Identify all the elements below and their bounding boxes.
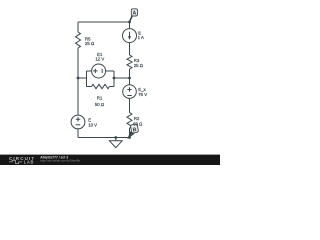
svg-text:75 V: 75 V: [138, 92, 147, 97]
wire right branch mid: [129, 69, 131, 85]
svg-text:50 Ω: 50 Ω: [95, 102, 105, 107]
node B flag pointer: [127, 131, 134, 139]
resistor R5: [76, 32, 81, 48]
resistor R1: [92, 84, 110, 88]
wire left branch lower: [77, 129, 79, 138]
wire top horizontal: [78, 21, 130, 23]
svg-text:http://circuitlab.com/c/3hxe5b: http://circuitlab.com/c/3hxe5b: [40, 159, 80, 163]
watermark bar: [0, 155, 220, 165]
junction dot right E1 loop: [113, 77, 116, 80]
wire E1 top lead left: [87, 70, 92, 72]
svg-text:50 Ω: 50 Ω: [133, 122, 143, 127]
svg-text:10 V: 10 V: [88, 122, 97, 127]
junction dot node B: [128, 136, 131, 139]
svg-text:R2: R2: [134, 116, 140, 121]
wire right branch below E_x: [129, 98, 131, 112]
wire R1 lead right: [110, 86, 115, 88]
arrowhead of current source I1: [128, 36, 131, 39]
watermark logo LAB: [9, 160, 22, 163]
svg-text:1 A: 1 A: [138, 35, 144, 40]
wire E1 loop right bracket: [113, 71, 115, 87]
wire left branch mid: [77, 48, 79, 115]
wire middle horizontal: [114, 77, 130, 79]
node B flag box: [130, 124, 138, 133]
current source I1: [123, 29, 137, 43]
junction dot left E1 loop: [77, 77, 80, 80]
svg-text:12 V: 12 V: [95, 56, 104, 61]
voltage source E_x: [123, 85, 137, 99]
svg-text:25 Ω: 25 Ω: [134, 63, 144, 68]
svg-text:LAB: LAB: [24, 159, 34, 164]
resistor R2: [127, 113, 132, 129]
wire E1 loop left bracket: [86, 71, 88, 87]
junction dot ground tap: [114, 136, 117, 139]
voltage source E: [71, 115, 85, 129]
wire right branch below I1: [129, 43, 131, 55]
ground: [115, 138, 117, 141]
wire bottom horizontal: [78, 137, 130, 139]
svg-text:25 Ω: 25 Ω: [85, 41, 95, 46]
wire E1 loop connector left: [78, 77, 87, 79]
node A flag box: [131, 9, 137, 16]
svg-text:A: A: [133, 11, 137, 17]
voltage source E1: [92, 64, 106, 78]
wire right branch top: [129, 22, 131, 29]
junction dot right branch mid: [128, 77, 131, 80]
wire left branch upper: [77, 22, 79, 32]
wire R1 lead left: [87, 86, 92, 88]
svg-text:R1: R1: [97, 96, 103, 101]
wire E1 top lead right: [106, 70, 115, 72]
resistor R3: [127, 55, 132, 69]
node A flag pointer: [129, 16, 133, 22]
node A junction dot: [128, 21, 131, 24]
wire right branch bottom: [129, 128, 131, 138]
